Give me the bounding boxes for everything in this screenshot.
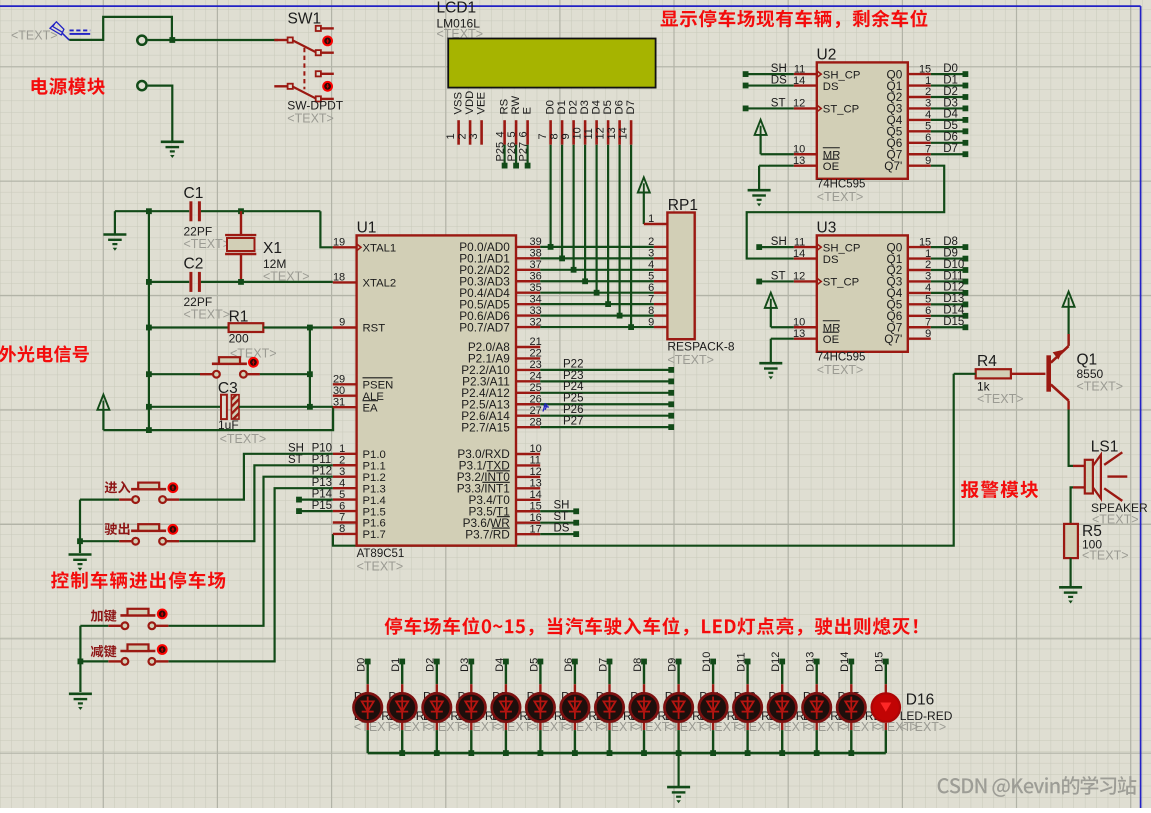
svg-text:1: 1 xyxy=(648,213,654,225)
label 进入 xyxy=(105,481,131,493)
wire net D2 to LED D3 xyxy=(425,658,440,753)
ground (power module) xyxy=(161,142,184,158)
wire T2 to ground xyxy=(148,86,173,141)
capacitor C3 (1uF electrolytic) xyxy=(149,380,333,446)
resistor R5 xyxy=(1064,523,1128,586)
svg-text:<TEXT>: <TEXT> xyxy=(667,353,714,367)
svg-text:D0: D0 xyxy=(943,63,958,75)
svg-text:1: 1 xyxy=(339,443,345,455)
wire 加键 right to P1.2 xyxy=(169,477,333,626)
svg-text:2: 2 xyxy=(925,259,931,271)
svg-text:5: 5 xyxy=(339,489,345,501)
svg-text:3: 3 xyxy=(648,248,654,260)
junction battery/SW1 wire xyxy=(169,37,175,43)
LED reference and value texts xyxy=(354,690,953,735)
junction X1 top xyxy=(238,208,244,214)
svg-text:P3.7/RD: P3.7/RD xyxy=(465,527,510,541)
junction X1 bottom xyxy=(238,279,244,285)
svg-text:P26: P26 xyxy=(506,142,518,162)
power arrow (RP1) xyxy=(638,177,650,224)
svg-text:D4: D4 xyxy=(943,109,958,121)
svg-text:17: 17 xyxy=(530,523,542,535)
power arrow (reset rail) xyxy=(97,395,109,431)
junction bus/bottom rail xyxy=(146,427,152,433)
svg-text:9: 9 xyxy=(560,133,572,139)
label 加键 xyxy=(91,609,117,622)
svg-text:D4: D4 xyxy=(590,100,602,114)
svg-text:1: 1 xyxy=(925,75,931,87)
svg-text:P1.0: P1.0 xyxy=(363,449,386,461)
svg-text:P2.7/A15: P2.7/A15 xyxy=(461,420,510,434)
wire net D7 to LED D8 xyxy=(597,658,612,753)
svg-text:D11: D11 xyxy=(736,652,748,671)
svg-text:<TEXT>: <TEXT> xyxy=(220,432,267,446)
svg-text:D2: D2 xyxy=(567,100,579,114)
svg-text:C3: C3 xyxy=(218,380,238,397)
toggle 减键 xyxy=(157,644,168,655)
button 进入 (enter) xyxy=(119,483,179,503)
svg-text:XTAL1: XTAL1 xyxy=(363,243,397,255)
LED D7 (LED-RED) xyxy=(561,693,589,721)
junction bus/R1 xyxy=(146,325,152,331)
svg-text:8: 8 xyxy=(339,523,345,535)
svg-text:28: 28 xyxy=(530,416,542,428)
ground (U3 OE) xyxy=(759,339,794,380)
svg-text:21: 21 xyxy=(530,336,542,348)
svg-text:EA: EA xyxy=(363,402,379,414)
U3 right pins xyxy=(884,236,931,346)
svg-text:3: 3 xyxy=(468,133,480,139)
svg-text:6: 6 xyxy=(925,305,931,317)
U1 pin-name underlines P3 xyxy=(482,471,510,528)
U2 right pins xyxy=(884,63,931,173)
svg-text:32: 32 xyxy=(530,316,542,328)
label 减键 xyxy=(91,645,117,658)
svg-text:25: 25 xyxy=(530,382,542,394)
wire 驶出 right to P1.1 xyxy=(179,465,333,541)
input terminal T1 xyxy=(136,36,146,45)
svg-text:DS: DS xyxy=(771,74,787,86)
svg-text:10: 10 xyxy=(571,127,583,139)
svg-text:1: 1 xyxy=(445,133,457,139)
svg-text:10: 10 xyxy=(793,143,805,155)
svg-text:DS: DS xyxy=(823,81,839,93)
svg-text:LS1: LS1 xyxy=(1091,438,1119,455)
svg-text:C1: C1 xyxy=(184,185,204,202)
wire net D11 to LED D12 xyxy=(736,652,751,753)
svg-text:OE: OE xyxy=(823,334,840,346)
toggle of photo-switch xyxy=(248,357,259,368)
U3 output wires D nets xyxy=(931,236,969,330)
svg-text:39: 39 xyxy=(530,236,542,248)
LED D9 (LED-RED) xyxy=(630,693,658,721)
capacitor C2 xyxy=(184,256,231,322)
svg-text:22: 22 xyxy=(530,348,542,360)
svg-text:12: 12 xyxy=(793,98,805,110)
svg-text:8: 8 xyxy=(548,133,560,139)
svg-text:C2: C2 xyxy=(184,256,204,273)
svg-text:13: 13 xyxy=(606,127,618,139)
svg-text:D8: D8 xyxy=(943,236,958,248)
svg-text:DS: DS xyxy=(554,523,570,535)
svg-text:6: 6 xyxy=(517,131,529,137)
svg-text:34: 34 xyxy=(530,293,542,305)
junction R1/RST xyxy=(307,325,313,331)
photo-switch button (reset) xyxy=(200,357,260,377)
svg-text:Q7': Q7' xyxy=(884,332,902,346)
svg-text:14: 14 xyxy=(793,75,805,87)
U1 right pins xyxy=(457,236,542,541)
svg-text:D5: D5 xyxy=(943,120,958,132)
wire LS1 to R5 xyxy=(1071,487,1073,524)
svg-text:VEE: VEE xyxy=(475,91,487,114)
svg-text:P0.7/AD7: P0.7/AD7 xyxy=(459,320,510,334)
wires P0.0-P0.7 to RP1 xyxy=(540,247,654,327)
LED D14 (LED-RED) xyxy=(803,693,831,721)
svg-text:ST: ST xyxy=(771,270,786,282)
wire net D0 to LED D1 xyxy=(356,658,371,753)
svg-text:2: 2 xyxy=(925,86,931,98)
svg-text:RP1: RP1 xyxy=(668,197,698,214)
svg-text:VDD: VDD xyxy=(464,91,476,115)
svg-text:14: 14 xyxy=(530,489,542,501)
U2 left pins xyxy=(793,63,860,173)
U2 output wires D nets xyxy=(931,63,969,157)
svg-text:19: 19 xyxy=(333,237,345,249)
junction bus/C3 xyxy=(146,404,152,410)
power arrow (Q1 emitter) xyxy=(1063,292,1075,346)
svg-text:16: 16 xyxy=(530,512,542,524)
svg-text:D3: D3 xyxy=(459,658,471,672)
svg-text:<TEXT>: <TEXT> xyxy=(11,29,58,43)
junction photo-switch/vert xyxy=(307,371,313,377)
svg-text:13: 13 xyxy=(793,155,805,167)
svg-text:11: 11 xyxy=(794,63,805,75)
watermark CSDN xyxy=(938,776,1137,797)
svg-text:14: 14 xyxy=(617,127,629,139)
wires P3.5-P3.7 (SH/ST/DS) xyxy=(540,500,579,537)
svg-text:Q1: Q1 xyxy=(1077,352,1098,369)
svg-text:D7: D7 xyxy=(597,658,609,672)
ground (R5) xyxy=(1059,587,1082,603)
svg-text:<TEXT>: <TEXT> xyxy=(872,720,919,734)
svg-text:9: 9 xyxy=(925,155,931,167)
svg-text:DS: DS xyxy=(823,254,839,266)
svg-text:4: 4 xyxy=(925,109,931,121)
svg-text:D3: D3 xyxy=(943,97,958,109)
display LCD1 LM016L xyxy=(437,0,656,88)
shift register U2 74HC595 body xyxy=(817,46,908,204)
svg-text:D0: D0 xyxy=(544,100,556,114)
svg-text:74HC595: 74HC595 xyxy=(817,352,866,364)
LED D6 (LED-RED) xyxy=(526,693,554,721)
svg-text:Q7': Q7' xyxy=(884,159,902,173)
svg-text:13: 13 xyxy=(793,328,805,340)
ground (entry buttons) xyxy=(69,555,92,571)
wire net D8 to LED D9 xyxy=(632,658,647,753)
svg-text:D14: D14 xyxy=(943,305,965,317)
U3 left pins xyxy=(793,236,860,346)
svg-text:8: 8 xyxy=(648,305,654,317)
crystal X1 xyxy=(225,211,309,283)
wire P1.5 stub xyxy=(296,508,333,514)
LED D2 (LED-RED) xyxy=(388,693,416,721)
svg-text:ST_CP: ST_CP xyxy=(823,277,859,289)
svg-text:5: 5 xyxy=(925,294,931,306)
svg-text:1: 1 xyxy=(925,248,931,260)
resistor R4 xyxy=(954,353,1046,406)
svg-text:R1: R1 xyxy=(229,308,249,325)
junction C1/bus xyxy=(146,208,152,214)
cursor mark (blue) xyxy=(543,403,549,412)
label 显示停车场现有车辆，剩余车位 xyxy=(661,10,928,29)
svg-text:<TEXT>: <TEXT> xyxy=(977,392,1024,406)
svg-text:P1.7: P1.7 xyxy=(363,529,386,541)
svg-text:D9: D9 xyxy=(667,658,679,672)
svg-text:33: 33 xyxy=(530,305,542,317)
svg-text:26: 26 xyxy=(530,393,542,405)
wire photo-switch left xyxy=(149,373,200,375)
svg-text:D1: D1 xyxy=(390,658,402,672)
junction C3/EA vertical xyxy=(307,404,313,410)
svg-text:14: 14 xyxy=(793,248,805,260)
label 报警模块 xyxy=(961,481,1038,499)
svg-text:D6: D6 xyxy=(563,658,575,672)
power arrow (U2 MR) xyxy=(755,120,794,155)
LED cathode bus wire xyxy=(368,750,886,756)
svg-text:D10: D10 xyxy=(701,652,713,672)
svg-text:2: 2 xyxy=(339,454,345,466)
svg-text:<TEXT>: <TEXT> xyxy=(1077,380,1124,394)
svg-text:U2: U2 xyxy=(817,46,837,63)
svg-text:RW: RW xyxy=(510,96,522,115)
svg-text:D15: D15 xyxy=(943,316,964,328)
svg-text:RST: RST xyxy=(363,323,386,335)
svg-text:D2: D2 xyxy=(943,86,958,98)
svg-text:P27: P27 xyxy=(563,416,583,428)
svg-text:SH: SH xyxy=(554,500,570,512)
wire net D10 to LED D11 xyxy=(701,652,716,753)
wire EA to VCC arrow (bottom rail) xyxy=(103,407,333,430)
wires P2.2-P2.7 with labels xyxy=(540,358,674,430)
svg-text:<TEXT>: <TEXT> xyxy=(184,307,231,321)
svg-text:R4: R4 xyxy=(977,353,997,370)
svg-text:11: 11 xyxy=(794,236,805,248)
svg-text:10: 10 xyxy=(793,316,805,328)
svg-text:D8: D8 xyxy=(632,658,644,672)
svg-text:P25: P25 xyxy=(494,142,506,162)
switch SW1 (SW-DPDT) xyxy=(274,11,343,126)
svg-text:10: 10 xyxy=(530,443,542,455)
LED D1 (LED-RED) xyxy=(354,693,382,721)
svg-text:SH_CP: SH_CP xyxy=(823,69,861,81)
wire net D6 to LED D7 xyxy=(563,658,578,753)
svg-text:P24: P24 xyxy=(563,381,584,393)
svg-text:D14: D14 xyxy=(839,652,851,672)
svg-text:SH: SH xyxy=(771,63,787,75)
svg-text:15: 15 xyxy=(919,236,931,248)
svg-text:D13: D13 xyxy=(943,293,964,305)
svg-text:P1.2: P1.2 xyxy=(363,472,386,484)
svg-text:D2: D2 xyxy=(425,658,437,672)
svg-text:E: E xyxy=(521,107,533,115)
svg-text:24: 24 xyxy=(530,371,542,383)
junction C2/bus xyxy=(146,279,152,285)
wires LCD D0-D7 down to P0 bus xyxy=(548,145,634,330)
svg-text:7: 7 xyxy=(537,133,549,139)
wire 进入 right to P1.0 xyxy=(179,454,333,500)
svg-text:SW-DPDT: SW-DPDT xyxy=(287,98,343,112)
power arrow (U3 MR) xyxy=(765,293,794,328)
svg-text:9: 9 xyxy=(339,317,345,329)
capacitor C1 xyxy=(184,185,231,251)
svg-text:5: 5 xyxy=(925,121,931,133)
svg-text:D16: D16 xyxy=(906,691,934,708)
microcontroller U1 AT89C51 body xyxy=(357,220,516,574)
svg-text:7: 7 xyxy=(339,512,345,524)
svg-text:38: 38 xyxy=(530,248,542,260)
svg-text:6: 6 xyxy=(648,282,654,294)
svg-text:U3: U3 xyxy=(817,219,837,236)
svg-text:ST: ST xyxy=(771,97,786,109)
svg-text:2: 2 xyxy=(456,133,468,139)
svg-text:2: 2 xyxy=(648,236,654,248)
transistor Q1 8550 (PNP) xyxy=(1046,334,1123,410)
svg-text:P1.6: P1.6 xyxy=(363,518,386,530)
battery B1 (blue source symbol) xyxy=(50,22,90,40)
svg-text:7: 7 xyxy=(925,143,931,155)
svg-text:D13: D13 xyxy=(805,652,817,672)
svg-text:11: 11 xyxy=(530,455,541,467)
label 电源模块 xyxy=(32,77,105,95)
svg-text:6: 6 xyxy=(339,500,345,512)
svg-text:7: 7 xyxy=(648,293,654,305)
wire photo-switch right + vertical to R1 net xyxy=(260,328,310,407)
svg-text:12: 12 xyxy=(530,466,542,478)
svg-text:D1: D1 xyxy=(943,74,958,86)
svg-text:P1.1: P1.1 xyxy=(363,460,386,472)
svg-text:37: 37 xyxy=(530,259,542,271)
svg-text:9: 9 xyxy=(648,316,654,328)
svg-text:D12: D12 xyxy=(770,652,782,672)
button 减键 (dec) xyxy=(108,644,168,664)
svg-text:D11: D11 xyxy=(943,270,963,282)
svg-text:RS: RS xyxy=(498,98,510,114)
svg-text:PSEN: PSEN xyxy=(363,380,394,392)
svg-text:5: 5 xyxy=(648,270,654,282)
wire Q1 collector to LS1 xyxy=(1069,410,1073,466)
svg-text:4: 4 xyxy=(925,282,931,294)
LED D16 (LED-RED) xyxy=(872,693,900,721)
svg-text:D12: D12 xyxy=(943,282,964,294)
wire XTAL2 net xyxy=(149,281,333,283)
button 驶出 (exit) xyxy=(119,524,179,544)
LED D15 (LED-RED) xyxy=(837,693,865,721)
svg-text:<TEXT>: <TEXT> xyxy=(287,111,334,125)
svg-text:<TEXT>: <TEXT> xyxy=(817,363,864,377)
svg-text:P22: P22 xyxy=(563,358,583,370)
svg-text:30: 30 xyxy=(333,385,345,397)
LED D10 (LED-RED) xyxy=(664,693,692,721)
wire 进入 left to ground bus xyxy=(80,500,119,553)
svg-text:VSS: VSS xyxy=(452,91,464,114)
toggle 进入 xyxy=(168,482,179,493)
wires LCD RS/RW/E stubs with labels xyxy=(494,142,530,169)
svg-text:D3: D3 xyxy=(579,100,591,114)
net labels P1.0-P1.5 xyxy=(288,443,333,512)
svg-text:D10: D10 xyxy=(943,259,964,271)
LED D12 (LED-RED) xyxy=(733,693,761,721)
input terminal T2 xyxy=(137,81,146,90)
svg-text:23: 23 xyxy=(530,359,542,371)
svg-text:D15: D15 xyxy=(874,652,886,672)
svg-text:4: 4 xyxy=(339,477,345,489)
svg-text:ST: ST xyxy=(554,511,569,523)
junction ground bus/减键 xyxy=(78,659,84,665)
ground (inc/dec buttons) xyxy=(69,694,92,710)
svg-text:11: 11 xyxy=(583,128,595,139)
svg-text:12: 12 xyxy=(594,127,606,139)
wire net D1 to LED D2 xyxy=(390,658,405,753)
svg-text:P1.3: P1.3 xyxy=(363,483,386,495)
svg-text:P1.4: P1.4 xyxy=(363,495,386,507)
junction ground bus/驶出 xyxy=(77,538,83,544)
junction bus/photo-switch xyxy=(146,371,152,377)
resistor pack RP1 RESPACK-8 xyxy=(644,197,735,367)
svg-text:<TEXT>: <TEXT> xyxy=(817,190,864,204)
svg-text:35: 35 xyxy=(530,282,542,294)
LED D3 (LED-RED) xyxy=(423,693,451,721)
button 加键 (inc) xyxy=(108,609,168,629)
wire 驶出 left xyxy=(80,540,119,542)
LED D13 (LED-RED) xyxy=(768,693,796,721)
wire net D9 to LED D10 xyxy=(667,658,682,753)
wire net D4 to LED D5 xyxy=(494,658,509,753)
svg-text:D4: D4 xyxy=(494,658,506,672)
toggle 加键 xyxy=(157,609,168,620)
svg-text:4: 4 xyxy=(648,259,654,271)
LCD1 pins xyxy=(445,91,637,145)
U2 input wires SH/ST xyxy=(743,63,794,111)
wire net D3 to LED D4 xyxy=(459,658,474,753)
svg-text:X1: X1 xyxy=(263,240,282,257)
svg-text:<TEXT>: <TEXT> xyxy=(1082,549,1129,563)
label 控制车辆进出停车场 xyxy=(51,571,225,589)
LED D8 (LED-RED) xyxy=(595,693,623,721)
svg-text:<TEXT>: <TEXT> xyxy=(184,237,231,251)
svg-text:D5: D5 xyxy=(602,100,614,114)
svg-text:AT89C51: AT89C51 xyxy=(357,548,405,560)
svg-text:18: 18 xyxy=(333,272,345,284)
wire 减键 right to P1.3 xyxy=(169,488,333,661)
svg-text:D9: D9 xyxy=(943,247,958,259)
wire P1.4 stub xyxy=(296,497,333,503)
svg-text:D6: D6 xyxy=(613,100,625,114)
ground (crystal area) xyxy=(103,211,126,251)
LED D4 (LED-RED) xyxy=(457,693,485,721)
svg-text:3: 3 xyxy=(925,98,931,110)
svg-text:D7: D7 xyxy=(943,143,958,155)
LED D5 (LED-RED) xyxy=(492,693,520,721)
svg-text:<TEXT>: <TEXT> xyxy=(357,560,404,574)
wire net D13 to LED D14 xyxy=(805,652,820,753)
svg-text:SH: SH xyxy=(771,236,787,248)
svg-text:200: 200 xyxy=(229,332,249,346)
svg-text:6: 6 xyxy=(925,132,931,144)
wire net D12 to LED D13 xyxy=(770,652,785,753)
label 外光电信号 xyxy=(0,345,89,362)
svg-text:D0: D0 xyxy=(356,658,368,672)
